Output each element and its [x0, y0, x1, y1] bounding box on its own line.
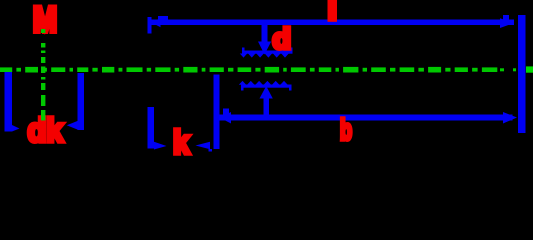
svg-text:dk: dk — [28, 112, 64, 149]
svg-text:b: b — [340, 115, 352, 147]
svg-text:d: d — [273, 24, 292, 56]
svg-text:M: M — [33, 1, 57, 40]
svg-text:k: k — [173, 124, 190, 158]
